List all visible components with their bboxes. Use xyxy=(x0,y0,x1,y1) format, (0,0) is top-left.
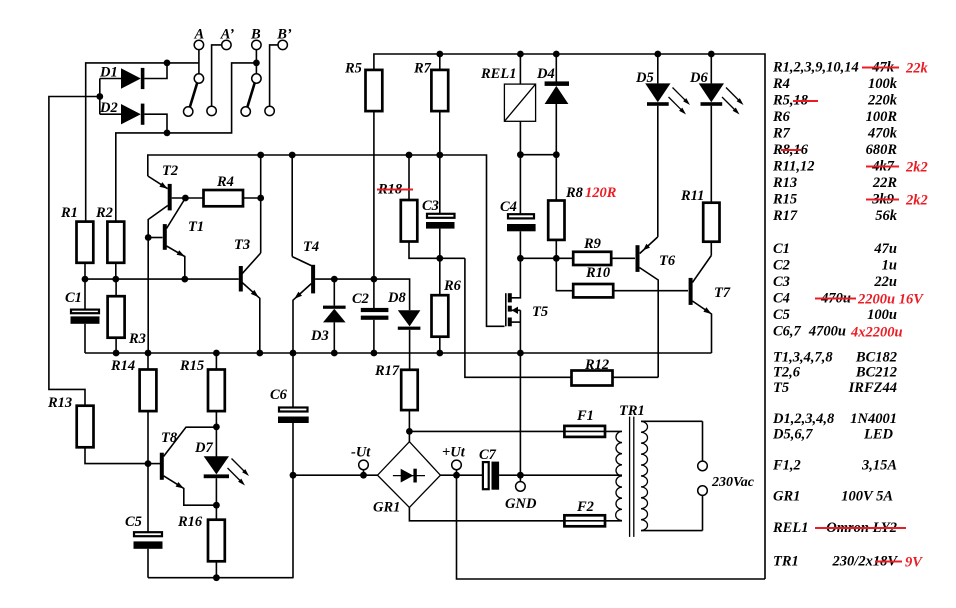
resistor R16 xyxy=(208,505,225,578)
junction xyxy=(517,255,524,262)
svg-text:3,15A: 3,15A xyxy=(861,458,897,474)
fuse F2 xyxy=(560,515,622,526)
switch A' xyxy=(207,40,231,115)
svg-text:C5: C5 xyxy=(773,307,790,323)
transistor T8 xyxy=(148,427,216,505)
svg-text:R1: R1 xyxy=(60,205,78,221)
svg-text:TR1: TR1 xyxy=(773,554,799,570)
junction xyxy=(182,195,189,202)
capacitor C6 xyxy=(278,353,309,578)
LED D6 xyxy=(699,54,724,203)
svg-text:2k2: 2k2 xyxy=(905,193,928,209)
strike mark xyxy=(866,199,899,201)
svg-text:R15: R15 xyxy=(179,358,204,374)
svg-text:R15: R15 xyxy=(772,192,797,208)
strike mark xyxy=(875,561,902,563)
junction xyxy=(113,350,120,357)
junction xyxy=(145,460,152,467)
wire bridge output to C7 xyxy=(440,474,482,476)
transistor T6 xyxy=(638,237,659,377)
svg-text:B: B xyxy=(250,27,261,43)
wire D1/D2 anodes vertical xyxy=(99,79,101,115)
svg-text:T6: T6 xyxy=(659,253,676,269)
svg-text:D3: D3 xyxy=(310,328,329,344)
transistor T1 xyxy=(148,198,185,279)
junction xyxy=(257,195,264,202)
resistor R10 xyxy=(556,258,688,297)
svg-text:100k: 100k xyxy=(868,76,898,92)
wire REL1/D4 bottom link xyxy=(520,154,556,156)
capacitor C4 xyxy=(507,155,536,259)
svg-text:T4: T4 xyxy=(303,239,319,255)
wire -Ut rail from C6 to bridge xyxy=(293,474,378,476)
svg-text:4700u: 4700u xyxy=(808,324,846,340)
wire node B rail: D2 cathode bottom wire to switch B xyxy=(116,63,257,222)
junction xyxy=(96,93,103,100)
svg-text:C2: C2 xyxy=(352,291,369,307)
svg-text:R10: R10 xyxy=(585,265,610,281)
capacitor C5 xyxy=(134,532,163,578)
diode D2 xyxy=(100,104,167,133)
junction xyxy=(517,151,524,158)
svg-text:100u: 100u xyxy=(867,307,897,323)
junction xyxy=(331,276,338,283)
resistor R18 (deleted) xyxy=(401,155,465,258)
junction xyxy=(553,255,560,262)
resistor R17 xyxy=(401,370,418,432)
svg-text:T5: T5 xyxy=(532,304,548,320)
svg-text:T2: T2 xyxy=(162,163,178,179)
junction xyxy=(360,472,367,479)
junction xyxy=(164,60,171,67)
wire bottom-left rail xyxy=(148,577,294,579)
svg-text:D7: D7 xyxy=(194,440,213,456)
svg-text:230Vac: 230Vac xyxy=(711,475,755,490)
resistor R11 xyxy=(703,203,719,256)
wire drain node xyxy=(520,257,572,259)
wire node A rail: R1 top to switch A xyxy=(86,63,199,222)
svg-text:R13: R13 xyxy=(47,395,72,411)
resistor R4 xyxy=(204,190,261,206)
resistor R6 xyxy=(432,258,449,353)
svg-text:R4: R4 xyxy=(772,76,790,92)
svg-text:56k: 56k xyxy=(875,208,898,224)
diode D8 xyxy=(398,310,421,370)
wire R1 bottom xyxy=(84,263,86,279)
fuse F1 xyxy=(409,426,622,437)
junction xyxy=(256,350,263,357)
junction xyxy=(406,152,413,159)
svg-text:680R: 680R xyxy=(866,142,898,158)
wire T4 base node W3 xyxy=(334,279,409,310)
svg-text:D6: D6 xyxy=(689,70,708,86)
wire +Ut down and around right side xyxy=(457,475,766,579)
relay REL1 xyxy=(504,54,535,155)
svg-text:R16: R16 xyxy=(177,514,203,530)
svg-text:C6,7: C6,7 xyxy=(773,324,802,340)
LED D5 xyxy=(645,54,670,237)
svg-text:R17: R17 xyxy=(772,208,798,224)
svg-text:D5: D5 xyxy=(635,70,654,86)
svg-text:R4: R4 xyxy=(216,174,234,190)
svg-text:R7: R7 xyxy=(413,61,432,77)
svg-text:22R: 22R xyxy=(872,175,898,191)
resistor R15 xyxy=(208,353,225,457)
junction xyxy=(436,51,443,58)
svg-text:B’: B’ xyxy=(276,27,292,43)
wire main bus xyxy=(85,352,712,354)
svg-text:GR1: GR1 xyxy=(773,489,800,505)
switch B xyxy=(241,40,261,116)
strike mark xyxy=(815,527,906,529)
resistor R7 xyxy=(431,54,448,214)
resistor R12 xyxy=(572,371,659,386)
svg-text:C2: C2 xyxy=(773,258,790,274)
svg-text:T1: T1 xyxy=(188,219,204,235)
junction xyxy=(371,276,378,283)
svg-text:T5: T5 xyxy=(773,380,789,396)
wire R2 bottom xyxy=(115,263,117,279)
svg-text:1N4001: 1N4001 xyxy=(850,411,897,427)
transistor T7 xyxy=(691,256,712,354)
junction xyxy=(517,350,524,357)
capacitor C1 xyxy=(71,279,100,353)
junction xyxy=(406,428,413,435)
junction xyxy=(371,350,378,357)
junction xyxy=(290,472,297,479)
terminal 230Vac upper xyxy=(698,421,708,470)
svg-text:T3: T3 xyxy=(234,237,250,253)
transformer TR1 core xyxy=(630,417,634,537)
svg-text:9V: 9V xyxy=(905,555,923,571)
junction xyxy=(145,234,152,241)
resistor R2 xyxy=(107,222,124,263)
svg-text:D8: D8 xyxy=(387,290,406,306)
resistor R14 xyxy=(140,353,157,532)
transformer TR1 primary winding xyxy=(641,421,703,530)
svg-text:R7: R7 xyxy=(772,126,791,142)
junction xyxy=(253,60,260,67)
junction xyxy=(708,51,715,58)
svg-text:22u: 22u xyxy=(873,274,897,290)
svg-text:GR1: GR1 xyxy=(373,500,400,516)
mosfet T5 xyxy=(506,258,521,475)
terminal +Ut xyxy=(452,460,462,475)
bridge rectifier GR1 xyxy=(378,431,565,520)
svg-text:+Ut: +Ut xyxy=(442,445,466,461)
svg-text:R17: R17 xyxy=(374,363,400,379)
svg-text:T2,6: T2,6 xyxy=(773,365,801,381)
svg-text:-Ut: -Ut xyxy=(351,445,371,461)
junction xyxy=(331,350,338,357)
svg-text:F1,2: F1,2 xyxy=(772,458,801,474)
LED D6 light arrows xyxy=(722,88,744,115)
svg-text:C4: C4 xyxy=(773,291,790,307)
switch A xyxy=(184,40,204,116)
svg-text:1u: 1u xyxy=(882,258,897,274)
junction xyxy=(553,51,560,58)
svg-text:470k: 470k xyxy=(867,126,898,142)
strike mark xyxy=(781,149,801,151)
svg-text:T7: T7 xyxy=(714,285,731,301)
svg-text:C6: C6 xyxy=(270,387,288,403)
svg-text:100V 5A: 100V 5A xyxy=(841,489,893,505)
strike mark xyxy=(815,298,856,300)
svg-text:22k: 22k xyxy=(905,61,929,77)
svg-text:220k: 220k xyxy=(867,93,898,109)
svg-text:D5,6,7: D5,6,7 xyxy=(772,427,813,443)
junction xyxy=(213,502,220,509)
svg-text:T8: T8 xyxy=(161,430,178,446)
svg-text:C1: C1 xyxy=(773,241,790,257)
svg-text:R2: R2 xyxy=(95,205,113,221)
LED D7 light arrows xyxy=(228,459,250,486)
junction xyxy=(553,151,560,158)
svg-text:R8: R8 xyxy=(565,185,584,201)
svg-text:F2: F2 xyxy=(576,499,594,515)
wire top rail xyxy=(374,54,765,579)
terminal 230Vac lower xyxy=(698,486,708,531)
wire R13 bottom to T8 base node xyxy=(85,447,148,463)
LED D5 light arrows xyxy=(669,88,691,115)
diode D3 xyxy=(323,279,346,353)
resistor R9 xyxy=(573,252,635,265)
junction xyxy=(112,276,119,283)
svg-text:A’: A’ xyxy=(220,27,235,43)
svg-text:R6: R6 xyxy=(772,109,791,125)
svg-text:2200u 16V: 2200u 16V xyxy=(857,292,924,308)
wire T4 collector to rail xyxy=(291,155,293,257)
junction xyxy=(164,130,171,137)
capacitor C2 xyxy=(361,279,389,353)
resistor R1 xyxy=(77,222,94,263)
svg-text:D4: D4 xyxy=(536,66,555,82)
svg-text:C4: C4 xyxy=(500,199,517,215)
terminal -Ut xyxy=(359,460,369,475)
junction xyxy=(654,51,661,58)
capacitor C7 xyxy=(483,462,622,490)
resistor R3 xyxy=(108,279,125,353)
wire R18 node down to R12 xyxy=(465,258,571,377)
capacitor C3 xyxy=(426,214,455,258)
svg-text:R12: R12 xyxy=(584,357,609,373)
svg-text:2k2: 2k2 xyxy=(905,160,928,176)
terminal GND xyxy=(516,475,526,491)
svg-text:R5: R5 xyxy=(344,61,362,77)
junction xyxy=(436,255,443,262)
junction xyxy=(453,472,460,479)
transistor T4 xyxy=(292,257,334,353)
resistor R13 xyxy=(77,406,94,448)
svg-text:C3: C3 xyxy=(422,198,439,214)
svg-text:D2: D2 xyxy=(99,100,118,116)
junction xyxy=(436,152,443,159)
junction xyxy=(517,472,524,479)
svg-text:R11: R11 xyxy=(680,188,704,204)
svg-text:R9: R9 xyxy=(583,236,601,252)
diode D1 xyxy=(100,63,167,89)
strike mark xyxy=(793,100,818,102)
svg-text:F1: F1 xyxy=(576,408,594,424)
junction xyxy=(213,574,220,581)
svg-text:R3: R3 xyxy=(128,331,146,347)
resistor R5 xyxy=(366,70,383,279)
wire anode node to left column down to R13 xyxy=(49,97,100,406)
svg-text:D1: D1 xyxy=(99,65,118,81)
svg-text:C7: C7 xyxy=(479,447,497,463)
svg-text:C5: C5 xyxy=(125,514,142,530)
svg-text:T1,3,4,7,8: T1,3,4,7,8 xyxy=(773,350,833,366)
transistor T3 xyxy=(241,253,261,353)
svg-text:TR1: TR1 xyxy=(619,403,645,419)
LED D7 xyxy=(204,456,229,505)
diode D4 xyxy=(545,54,569,155)
svg-text:R11,12: R11,12 xyxy=(772,159,815,175)
svg-text:GND: GND xyxy=(505,496,537,512)
svg-text:R1,2,3,9,10,14: R1,2,3,9,10,14 xyxy=(772,60,859,76)
svg-text:R14: R14 xyxy=(110,358,135,374)
junction xyxy=(289,152,296,159)
svg-text:C3: C3 xyxy=(773,274,790,290)
svg-text:IRFZ44: IRFZ44 xyxy=(848,380,897,396)
svg-text:LED: LED xyxy=(863,427,894,443)
junction xyxy=(517,51,524,58)
junction xyxy=(82,276,89,283)
svg-text:REL1: REL1 xyxy=(772,520,808,536)
svg-text:120R: 120R xyxy=(585,185,617,201)
switch B' xyxy=(265,40,288,115)
svg-text:100R: 100R xyxy=(866,109,898,125)
strike mark xyxy=(377,189,413,191)
svg-text:BC212: BC212 xyxy=(855,365,897,381)
svg-text:A: A xyxy=(193,27,204,43)
transistor T2 xyxy=(148,176,203,353)
wire R4 right to rail and T3 collector xyxy=(260,155,262,253)
wire driver rail W1 xyxy=(148,155,505,326)
resistor R8 xyxy=(548,155,564,259)
junction xyxy=(257,152,264,159)
strike mark xyxy=(862,67,899,69)
svg-text:C1: C1 xyxy=(65,290,82,306)
svg-text:REL1: REL1 xyxy=(480,66,516,82)
junction xyxy=(213,350,220,357)
junction xyxy=(290,350,297,357)
svg-text:4x2200u: 4x2200u xyxy=(850,325,903,341)
junction xyxy=(213,424,220,431)
strike mark xyxy=(866,166,899,168)
junction xyxy=(145,350,152,357)
wire mid rail W2 xyxy=(85,278,239,280)
svg-text:R6: R6 xyxy=(443,278,462,294)
svg-text:47u: 47u xyxy=(873,241,897,257)
junction xyxy=(181,276,188,283)
svg-text:BC182: BC182 xyxy=(855,350,897,366)
junction xyxy=(436,350,443,357)
transformer TR1 secondary windings xyxy=(616,431,622,520)
svg-text:R13: R13 xyxy=(772,175,797,191)
svg-text:D1,2,3,4,8: D1,2,3,4,8 xyxy=(772,411,835,427)
